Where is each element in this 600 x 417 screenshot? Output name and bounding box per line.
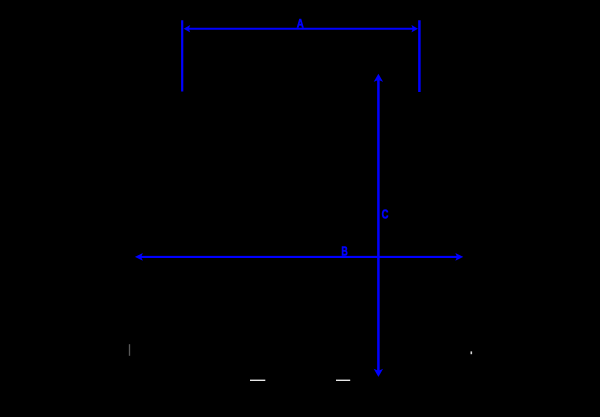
svg-text:A: A <box>297 19 304 31</box>
faint highlight: lower shelf dash right <box>336 379 350 381</box>
svg-text:C: C <box>382 206 389 221</box>
svg-text:B: B <box>341 244 347 258</box>
dimension C: top arrowhead <box>374 74 383 82</box>
dimension C: vertical line <box>377 80 380 371</box>
dimension A: left extension line <box>181 20 183 91</box>
faint highlight: lower shelf dash left <box>250 379 265 381</box>
dimension A: left arrowhead <box>184 25 191 32</box>
dimension A: horizontal line <box>188 28 413 30</box>
dimension C: bottom arrowhead <box>374 369 383 377</box>
dimension A: right arrowhead <box>411 25 418 32</box>
dimension B: horizontal line <box>140 256 458 258</box>
faint highlight: right leg dot <box>470 351 472 354</box>
dimension B: right arrowhead <box>455 253 463 261</box>
faint highlight: left leg tick <box>129 344 131 356</box>
dimension A: right extension line <box>418 20 421 92</box>
dimension B: left arrowhead <box>135 253 143 261</box>
